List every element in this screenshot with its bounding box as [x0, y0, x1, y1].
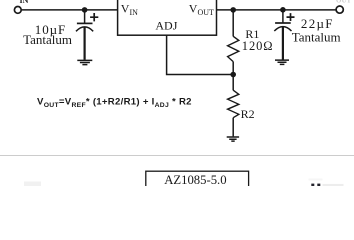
- node junction dot C2: [280, 7, 286, 13]
- wire C2 to ground: [282, 27, 284, 60]
- svg-text:120Ω: 120Ω: [242, 39, 274, 53]
- wire C2 down: [282, 10, 284, 23]
- node junction dot C1: [82, 7, 88, 13]
- output terminal: [336, 6, 343, 13]
- svg-text:Tantalum: Tantalum: [23, 32, 72, 47]
- wire R2 top: [232, 75, 234, 91]
- ground (C2): [275, 60, 289, 64]
- resistor R1 120ohm zigzag: [228, 36, 239, 61]
- svg-text:OUT: OUT: [336, 0, 352, 4]
- wire C1 to ground: [83, 27, 85, 60]
- svg-text:IN: IN: [20, 0, 29, 5]
- svg-text:AZ1085-5.0: AZ1085-5.0: [164, 173, 226, 186]
- faint cut text bottom-left: [24, 182, 41, 187]
- svg-text:R2: R2: [241, 107, 255, 121]
- svg-text:VOUT=VREF* (1+R2/R1) + IADJ *: VOUT=VREF* (1+R2/R1) + IADJ * R2: [37, 96, 192, 109]
- capacitor C1 10uF plates: [77, 22, 93, 24]
- wire junction down to C1: [84, 10, 86, 23]
- cut glyph tops bottom-right: [309, 179, 323, 181]
- input terminal: [14, 6, 21, 13]
- node junction dot R1 top: [230, 7, 236, 13]
- capacitor C2 polarity +: [287, 13, 295, 21]
- node junction dot ADJ/R1/R2: [230, 72, 236, 78]
- svg-text:Tantalum: Tantalum: [292, 30, 341, 45]
- svg-text:ADJ: ADJ: [155, 19, 177, 33]
- wire input to regulator VIN: [21, 9, 117, 11]
- faint page separator line: [0, 155, 354, 157]
- wire R2 to ground: [232, 118, 234, 137]
- op-amp U1 regulator box (top cut off): [118, 0, 217, 35]
- capacitor C1 polarity +: [90, 13, 98, 21]
- wire R1 bottom: [232, 62, 234, 75]
- wire VOUT down to R1: [232, 10, 234, 37]
- resistor R2 zigzag: [228, 90, 239, 118]
- ground (R2): [227, 137, 239, 141]
- capacitor C2 22uF plates: [275, 22, 291, 24]
- wire ADJ pin to R1/R2 junction: [167, 35, 234, 75]
- ground (C1): [77, 60, 92, 64]
- wire VOUT to output: [217, 9, 337, 11]
- next-figure box AZ1085-5.0 (cut off at bottom): [146, 171, 249, 191]
